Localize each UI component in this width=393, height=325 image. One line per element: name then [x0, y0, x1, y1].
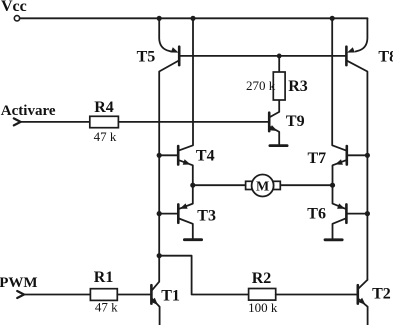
- transistor T5 collector wire: [159, 61, 178, 256]
- motor M right terminal: [273, 181, 280, 189]
- svg-text:T7: T7: [308, 150, 327, 167]
- svg-text:T6: T6: [307, 206, 326, 223]
- wire: Vcc rail: [20, 17, 368, 19]
- motor M left terminal: [246, 181, 253, 189]
- node: right rail / T7 base: [365, 153, 370, 158]
- transistor T3 collector wire: [179, 219, 193, 239]
- transistor T1 emitter wire: [152, 299, 159, 325]
- svg-text:100 k: 100 k: [248, 300, 278, 315]
- wire: T3 base: [159, 213, 177, 215]
- transistor T7 base bar: [345, 146, 348, 164]
- svg-text:47 k: 47 k: [94, 129, 117, 144]
- transistor T7 emitter arrow (NPN): [335, 159, 343, 164]
- node: Vcc / T4 collector junction: [190, 16, 195, 21]
- resistor R2 body: [249, 289, 276, 301]
- svg-text:T5: T5: [137, 49, 156, 66]
- wire: T5/T8 base rail: [180, 55, 345, 57]
- transistor T6 base bar: [345, 204, 348, 222]
- node: left rail / T4 base: [157, 153, 162, 158]
- svg-text:T8: T8: [378, 49, 393, 66]
- transistor T3 base bar: [177, 204, 180, 222]
- wire: T4 base: [159, 154, 177, 156]
- svg-text:47 k: 47 k: [95, 299, 118, 314]
- transistor T3 emitter wire: [180, 185, 193, 209]
- motor M body: [252, 175, 274, 197]
- wire: T4 collector to Vcc: [179, 18, 193, 150]
- transistor T2 collector wire: [359, 280, 368, 289]
- transistor T9 collector wire: [270, 100, 279, 117]
- resistor R1 body: [90, 289, 117, 301]
- transistor T4 emitter arrow (NPN): [183, 159, 191, 164]
- node: Vcc / T5 emitter junction: [157, 16, 162, 21]
- transistor T2 base bar: [356, 285, 359, 303]
- node: left rail / T1 collector / R2 link: [157, 253, 162, 258]
- wire: base rail to R3: [278, 56, 280, 72]
- wire: Activare to R4: [21, 121, 90, 123]
- transistor T8 emitter arrow (PNP): [347, 47, 355, 52]
- svg-text:T3: T3: [197, 208, 216, 225]
- wire: motor left: [193, 184, 246, 186]
- transistor T6 collector wire: [333, 219, 346, 239]
- svg-text:T4: T4: [196, 147, 215, 164]
- wire: R2 to T2 base: [276, 294, 357, 296]
- transistor T1 base bar: [150, 285, 153, 303]
- transistor T1 collector wire: [152, 256, 159, 290]
- ground under T9: [270, 144, 287, 147]
- resistor R4 body: [90, 116, 119, 127]
- transistor T8 collector wire: [347, 61, 367, 280]
- transistor T7 emitter wire: [333, 160, 346, 185]
- svg-text:T9: T9: [286, 113, 305, 130]
- wire: T7 base: [348, 154, 368, 156]
- wire: T1 collector link to R2: [159, 256, 248, 295]
- Activare input terminal arrow: [14, 118, 21, 125]
- transistor T5 base bar: [178, 47, 181, 65]
- transistor T6 emitter arrow (PNP): [337, 203, 345, 208]
- transistor T9 base bar: [268, 113, 271, 131]
- wire: PWM to R1: [24, 294, 90, 296]
- svg-text:R2: R2: [252, 270, 272, 287]
- transistor T1 emitter arrow (NPN): [151, 298, 158, 305]
- svg-text:270 k: 270 k: [246, 78, 276, 93]
- transistor T8 emitter wire: [356, 18, 368, 51]
- transistor T9 emitter arrow (NPN): [269, 125, 277, 131]
- transistor T2 emitter wire: [359, 299, 368, 325]
- wire: T6 base: [347, 213, 367, 215]
- wire: R1 to T1 base: [117, 294, 150, 296]
- node: T4/T3 emitters / motor left: [190, 183, 195, 188]
- transistor T4 base bar: [177, 146, 180, 164]
- ground under T3: [184, 238, 201, 241]
- transistor T5 emitter wire: [159, 18, 171, 51]
- transistor T5 emitter arrow (PNP): [171, 47, 179, 52]
- node: Vcc / T7 collector junction: [330, 16, 335, 21]
- svg-text:PWM: PWM: [0, 275, 38, 291]
- Vcc input terminal: [14, 16, 19, 21]
- svg-text:M: M: [256, 180, 269, 195]
- transistor T8 base bar: [345, 47, 348, 65]
- wire: R4 to T9 base: [118, 121, 268, 123]
- ground under T6: [325, 238, 342, 241]
- PWM input terminal arrow: [17, 291, 24, 298]
- transistor T9 emitter wire: [270, 127, 279, 144]
- node: T7/T6 emitters / motor right: [330, 183, 335, 188]
- transistor T2 emitter arrow (NPN): [358, 298, 365, 305]
- svg-text:Activare: Activare: [1, 103, 56, 119]
- svg-text:R3: R3: [288, 78, 308, 95]
- svg-text:R4: R4: [94, 99, 114, 116]
- svg-text:T1: T1: [161, 287, 180, 304]
- svg-text:R1: R1: [94, 269, 114, 286]
- wire: motor right: [280, 184, 332, 186]
- svg-text:T2: T2: [372, 286, 391, 303]
- node: base rail / R3 junction: [277, 54, 282, 59]
- resistor R3 body: [273, 72, 285, 100]
- node: left rail / T3 base: [157, 211, 162, 216]
- node: right rail / T6 base: [365, 211, 370, 216]
- transistor T6 emitter wire: [333, 185, 346, 209]
- transistor T4 emitter wire: [179, 160, 193, 185]
- wire: T7 collector to Vcc: [332, 18, 346, 150]
- svg-text:Vcc: Vcc: [1, 0, 27, 15]
- transistor T3 emitter arrow (PNP): [180, 203, 188, 208]
